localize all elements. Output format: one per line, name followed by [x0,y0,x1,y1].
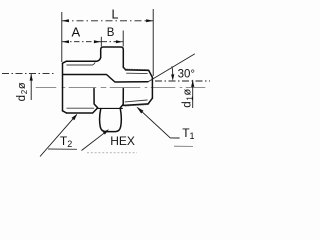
faint rule under T1 [174,145,193,147]
arrow T1 leader [136,107,143,114]
thread T1 root top [127,72,148,74]
centerline [36,87,205,89]
right end face [151,77,153,98]
thread T1 crest bottom serration [125,105,148,106]
arrow L right [146,19,153,22]
arrow HEX leader [103,129,109,134]
extension line left [61,12,63,62]
hex lower face with chamfer arcs [100,109,122,132]
bore line d2 step to d1 [63,75,148,83]
arrow T2 leader [72,114,78,121]
arrow d1 [191,80,194,87]
stray scan lines [48,146,193,153]
dimension line A [62,41,101,43]
hex step to right thread [123,67,125,70]
thread T1 crest bottom [123,104,148,106]
thread T1 crest top [126,69,149,72]
T2 leader line [40,115,77,157]
chamfer top-left [63,61,67,63]
thread T1 crest top serration [127,68,149,71]
dimension and extension lines [2,9,210,108]
thread T1 root bottom [125,100,147,102]
arrow d2 [30,74,33,81]
HEX leader line [82,133,105,151]
thread T2 crest bottom [67,108,98,113]
hex band line [98,107,123,109]
d1 arrow shaft [192,80,194,108]
thread T2 crest top [67,58,101,62]
svg-text:HEX: HEX [110,134,135,148]
thread T1 tip chamfer top [149,70,153,77]
arrow L left [62,19,69,22]
leader lines [40,108,180,157]
extension line right [152,9,154,76]
arrowheads [30,19,195,134]
d2 arrow shaft [30,74,32,100]
rule under T2 [48,148,77,150]
hex upper section outline [101,47,124,67]
extension line hex right [122,31,124,47]
dimension line B [102,41,123,43]
dimension line L [62,20,153,22]
arrow A right [94,40,101,43]
T1 leader line [138,108,180,138]
faint dotted row under HEX [87,152,137,154]
arrow B right [116,40,123,43]
svg-text:30°: 30° [178,68,195,80]
arrow 30 deg [171,74,174,81]
thread T2 root bottom [67,107,94,109]
thread T1 tip chamfer bottom [148,98,152,103]
svg-text:A: A [72,24,81,39]
svg-text:B: B [107,27,115,39]
d2 bore dash line [2,73,56,75]
arrow A left [62,40,69,43]
d1 bore dash line [155,80,210,82]
chamfer bottom-left [63,111,67,113]
30 deg angle arrow shaft [171,66,174,75]
extension tick A/B [100,37,102,47]
svg-text:L: L [112,7,119,21]
seat cone line extended toward 30 deg label [148,54,195,82]
thread T2 root top [67,63,95,65]
hex lower left outer edge [94,89,98,108]
hex lower right outer edge [120,89,123,108]
left end face [62,63,64,111]
